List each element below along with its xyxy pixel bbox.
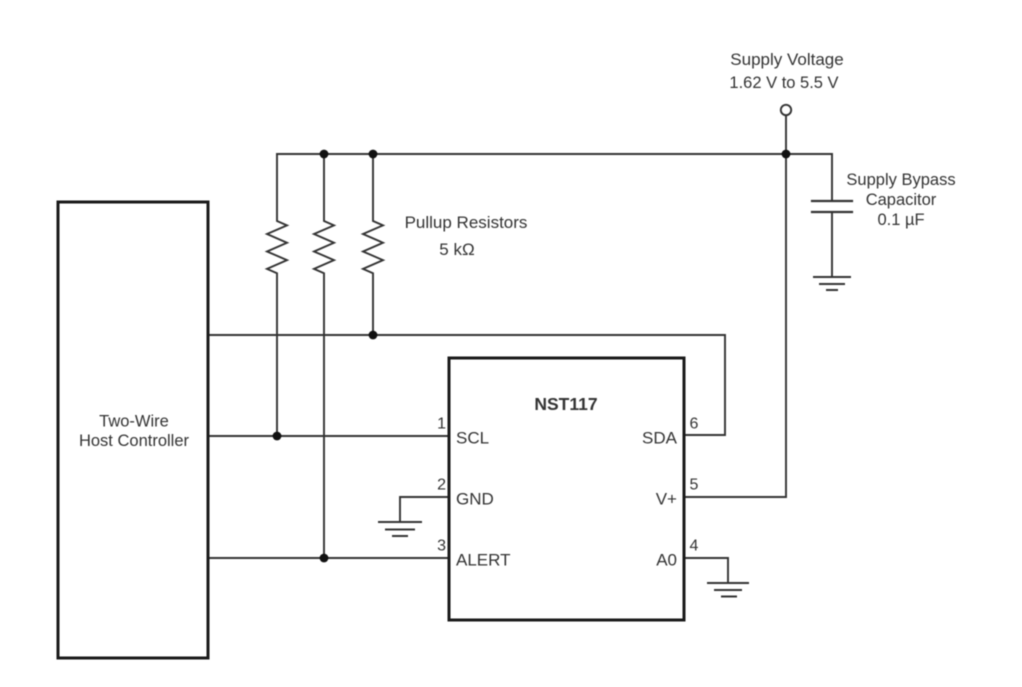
supply terminal circle <box>781 105 791 115</box>
svg-text:Supply Voltage: Supply Voltage <box>730 50 843 69</box>
ground (bypass capacitor) <box>814 277 850 290</box>
wire supply terminal drop <box>785 116 787 154</box>
svg-text:2: 2 <box>437 477 446 494</box>
junction R3 / SDA net <box>369 331 378 340</box>
junction rail / supply column <box>782 150 791 159</box>
junction R2 / ALERT net <box>320 554 329 563</box>
junction R1 / SCL net <box>273 432 282 441</box>
svg-text:V+: V+ <box>656 490 677 509</box>
svg-text:GND: GND <box>456 490 494 509</box>
resistor R1 <box>267 154 287 436</box>
wire GND pin 2 <box>400 497 449 521</box>
svg-text:6: 6 <box>690 416 699 433</box>
svg-text:SCL: SCL <box>456 429 489 448</box>
svg-text:5: 5 <box>690 477 699 494</box>
wire SDA net (host to pin 6) <box>208 335 725 435</box>
svg-text:Capacitor: Capacitor <box>866 191 937 209</box>
junction on rail at R2 <box>320 150 329 159</box>
resistor R3 <box>363 154 383 335</box>
svg-text:4: 4 <box>690 538 699 555</box>
wire supply rail top <box>277 153 832 155</box>
svg-text:1: 1 <box>437 416 446 433</box>
svg-text:Two-Wire: Two-Wire <box>99 413 169 431</box>
wire A0 pin 4 <box>684 558 728 582</box>
svg-text:NST117: NST117 <box>534 394 597 414</box>
wire ALERT net (host to pin 3) <box>208 557 449 559</box>
op-amp U1 NST117 box <box>449 358 684 620</box>
svg-text:3: 3 <box>437 538 446 555</box>
junction on rail at R3 <box>369 150 378 159</box>
ground (GND pin 2) <box>379 522 421 536</box>
wire V+ pin 5 to supply <box>684 154 786 497</box>
svg-text:A0: A0 <box>656 551 677 570</box>
svg-text:Pullup Resistors: Pullup Resistors <box>405 213 528 232</box>
resistor R2 <box>314 154 334 558</box>
host controller box <box>58 202 208 658</box>
svg-text:1.62 V to 5.5 V: 1.62 V to 5.5 V <box>729 74 838 92</box>
capacitor C1 <box>812 201 852 212</box>
wire SCL net (host to pin 1) <box>208 435 449 437</box>
svg-text:Host Controller: Host Controller <box>79 432 190 450</box>
svg-text:5 kΩ: 5 kΩ <box>439 240 474 259</box>
svg-text:SDA: SDA <box>642 429 678 448</box>
svg-text:Supply Bypass: Supply Bypass <box>846 171 955 189</box>
ground (A0 pin 4) <box>708 583 748 597</box>
svg-text:ALERT: ALERT <box>456 551 511 570</box>
wire capacitor branch <box>831 154 833 276</box>
svg-text:0.1 µF: 0.1 µF <box>877 211 924 229</box>
